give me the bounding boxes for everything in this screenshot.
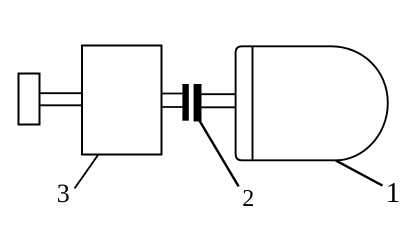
svg-text:2: 2: [242, 186, 254, 212]
svg-text:3: 3: [57, 179, 70, 208]
svg-text:1: 1: [386, 177, 401, 209]
